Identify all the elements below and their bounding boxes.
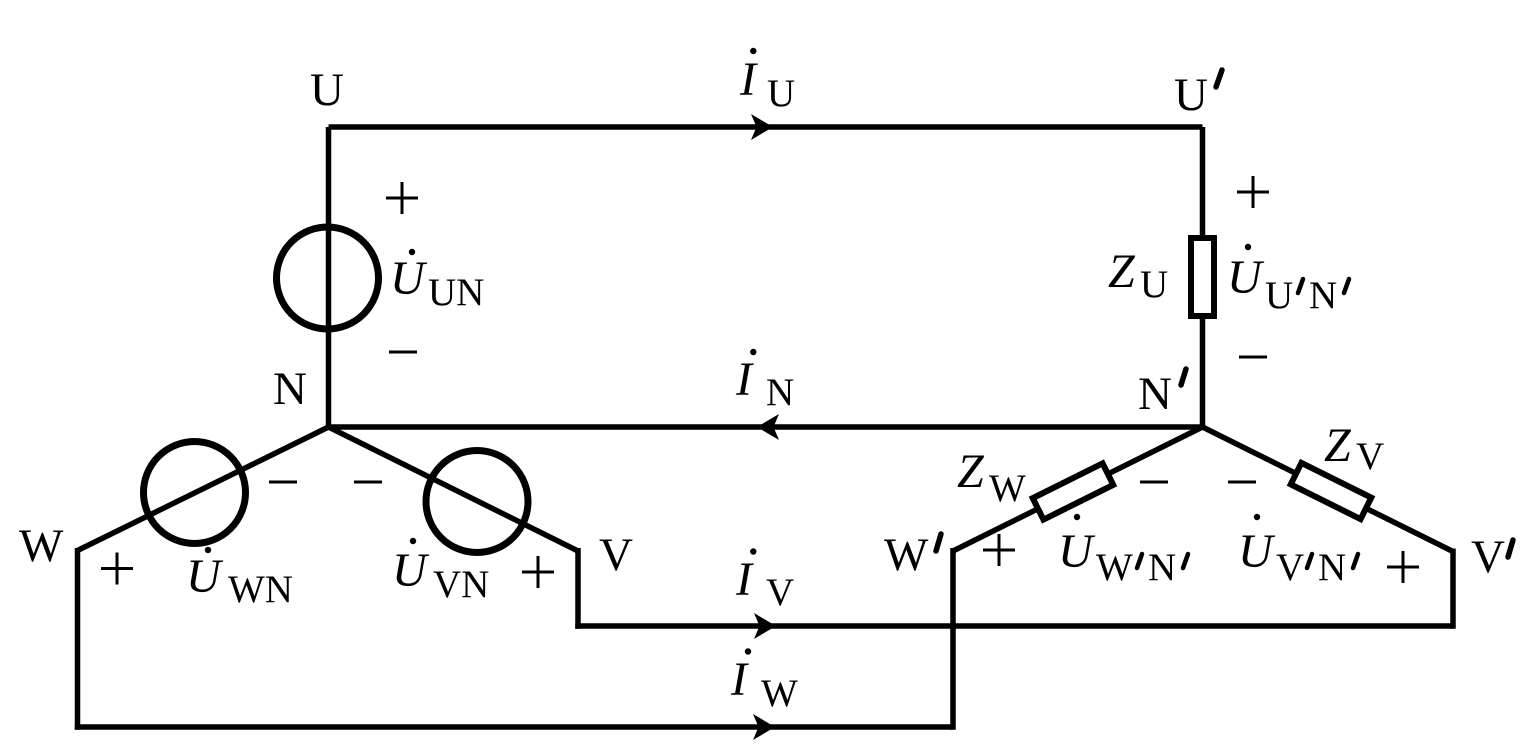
svg-text:U: U: [392, 544, 430, 597]
svg-text:W: W: [761, 672, 798, 715]
node label U': [1174, 69, 1222, 121]
minus U_V'N': [1228, 481, 1256, 484]
svg-text:I: I: [735, 553, 754, 606]
svg-text:N: N: [1318, 546, 1346, 589]
svg-text:N: N: [1138, 368, 1172, 420]
label I_U: [739, 48, 795, 115]
svg-text:W: W: [989, 467, 1026, 510]
label U_U'N': [1227, 244, 1349, 317]
node label W': [884, 529, 941, 581]
label I_V: [735, 548, 794, 614]
minus U_W'N': [1140, 481, 1168, 484]
svg-text:N: N: [766, 371, 794, 414]
arrow current I_U: [751, 114, 773, 140]
svg-text:I: I: [730, 653, 749, 706]
minus U_WN: [269, 481, 297, 484]
label I_N: [735, 349, 794, 414]
svg-text:U: U: [1227, 251, 1265, 304]
plus U_U'N': [1237, 176, 1269, 208]
node label N': [1138, 368, 1186, 420]
svg-text:W: W: [884, 529, 929, 581]
wire U to U' (top phase U line): [329, 124, 1203, 130]
voltage source U_WN: [144, 442, 246, 544]
wire N to W (phase W source branch): [78, 427, 329, 551]
label U_WN: [186, 547, 293, 611]
plus U_W'N': [983, 534, 1015, 566]
svg-text:W: W: [1096, 546, 1133, 589]
impedance Z_W: [1033, 463, 1114, 519]
voltage source U_UN: [277, 227, 379, 329]
svg-text:U: U: [767, 72, 795, 115]
impedance Z_V: [1291, 463, 1372, 519]
arrow current I_V: [754, 613, 776, 639]
svg-text:U: U: [1174, 69, 1208, 121]
wire W to W' (bottom phase W line): [75, 724, 953, 730]
svg-text:WN: WN: [228, 568, 293, 611]
minus U_VN: [354, 481, 382, 484]
svg-text:Z: Z: [1108, 245, 1136, 298]
svg-text:U: U: [390, 252, 428, 305]
label Z_V: [1324, 419, 1384, 478]
svg-text:U: U: [1140, 263, 1168, 306]
svg-text:N: N: [1148, 546, 1176, 589]
svg-text:UN: UN: [428, 271, 484, 314]
svg-text:Z: Z: [957, 445, 985, 498]
plus U_WN: [101, 553, 133, 585]
wire W' down (W' vertical): [950, 548, 956, 730]
svg-text:I: I: [735, 353, 754, 406]
minus U_UN: [389, 351, 417, 354]
wire W down (W vertical): [75, 548, 81, 730]
label Z_U: [1108, 245, 1168, 306]
label U_W'N': [1058, 514, 1188, 589]
svg-text:V: V: [766, 571, 794, 614]
label U_VN: [392, 538, 489, 606]
svg-text:Z: Z: [1324, 419, 1352, 472]
svg-text:V: V: [1356, 435, 1384, 478]
label U_UN: [390, 249, 484, 314]
svg-text:U: U: [1265, 274, 1293, 317]
svg-text:N: N: [1309, 274, 1337, 317]
svg-text:U: U: [310, 64, 344, 116]
plus U_V'N': [1387, 551, 1419, 583]
impedance Z_U: [1191, 238, 1214, 316]
wire V to V' (phase V line): [575, 623, 1453, 629]
svg-text:W: W: [19, 520, 64, 572]
svg-text:VN: VN: [433, 563, 489, 606]
svg-text:N: N: [273, 363, 307, 415]
wire U' to N' (right vertical): [1200, 127, 1206, 427]
wire U to N (left vertical): [326, 127, 332, 427]
node label V': [1471, 531, 1513, 583]
minus U_U'N': [1239, 356, 1267, 359]
svg-text:I: I: [739, 53, 758, 106]
svg-text:V: V: [599, 529, 633, 581]
label U_V'N': [1238, 514, 1358, 589]
wire V' down (V' vertical): [1450, 549, 1456, 629]
plus U_VN: [522, 556, 554, 588]
svg-text:V: V: [1471, 531, 1505, 583]
svg-text:U: U: [1058, 525, 1096, 578]
svg-text:U: U: [1238, 525, 1276, 578]
voltage source U_VN: [426, 451, 528, 553]
svg-text:V: V: [1276, 546, 1304, 589]
wire N to V (phase V source branch): [329, 427, 579, 551]
svg-text:U: U: [186, 550, 224, 603]
arrow current I_N (pointing left): [757, 414, 779, 440]
plus U_UN: [386, 182, 418, 214]
wire N' to V' (phase V load branch): [1203, 427, 1454, 552]
arrow current I_W: [753, 714, 775, 740]
wire N' to W' (phase W load branch): [953, 427, 1203, 551]
label I_W: [730, 648, 798, 715]
wire N' to N (neutral line): [329, 424, 1203, 430]
label Z_W: [957, 445, 1026, 510]
wire V down (V vertical): [575, 548, 581, 629]
